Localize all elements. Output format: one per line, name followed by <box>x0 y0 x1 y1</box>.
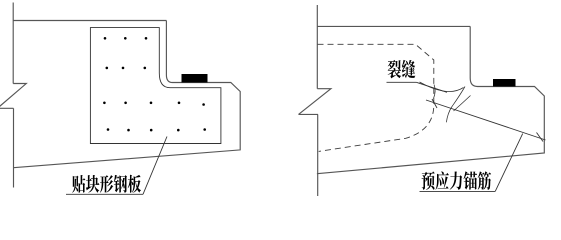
crack squiggle 3 <box>454 96 471 112</box>
right figure: corbel top edge <box>317 25 470 27</box>
leader line to anchor bar <box>495 134 523 192</box>
right figure: pier edge lower segment <box>317 114 319 196</box>
right figure: corbel outer outline with step <box>317 26 544 173</box>
anchor bar end tick (right) <box>537 133 544 142</box>
left figure: patch steel plate outline <box>90 28 221 144</box>
label underline (left) <box>66 193 143 195</box>
left figure: pier edge upper segment <box>12 3 14 84</box>
label: 预应力锚筋 (prestressed anchor bar) <box>422 171 492 189</box>
crack squiggle 2 (main crack) <box>446 87 465 123</box>
left figure: anchor bolt dots on plate <box>103 37 206 131</box>
break symbol (left pier) <box>0 84 26 109</box>
prestressed anchor bar line <box>426 100 546 140</box>
left figure: corbel top edge <box>13 20 166 22</box>
right figure: pier edge upper segment <box>316 5 318 89</box>
right figure: bearing pad (black) <box>493 79 516 87</box>
dashed crack-surface outline <box>318 44 434 151</box>
crack squiggle 4 <box>434 85 436 99</box>
label: 裂缝 (crack) <box>388 60 416 79</box>
label underline (anchor) <box>420 190 496 192</box>
crack squiggle 1 <box>420 82 464 92</box>
left figure: pier edge lower segment <box>13 108 15 187</box>
label underline (crack) <box>387 81 417 83</box>
left figure: corbel outer outline with step <box>13 21 240 168</box>
left figure: bearing pad (black) <box>182 74 208 83</box>
break symbol (right pier) <box>299 89 331 115</box>
leader line to crack <box>416 82 447 92</box>
label: 贴块形钢板 (patch-shaped steel plate) <box>72 175 141 193</box>
leader line to plate (left) <box>143 137 167 195</box>
anchor bar end tick (left) <box>432 99 437 108</box>
